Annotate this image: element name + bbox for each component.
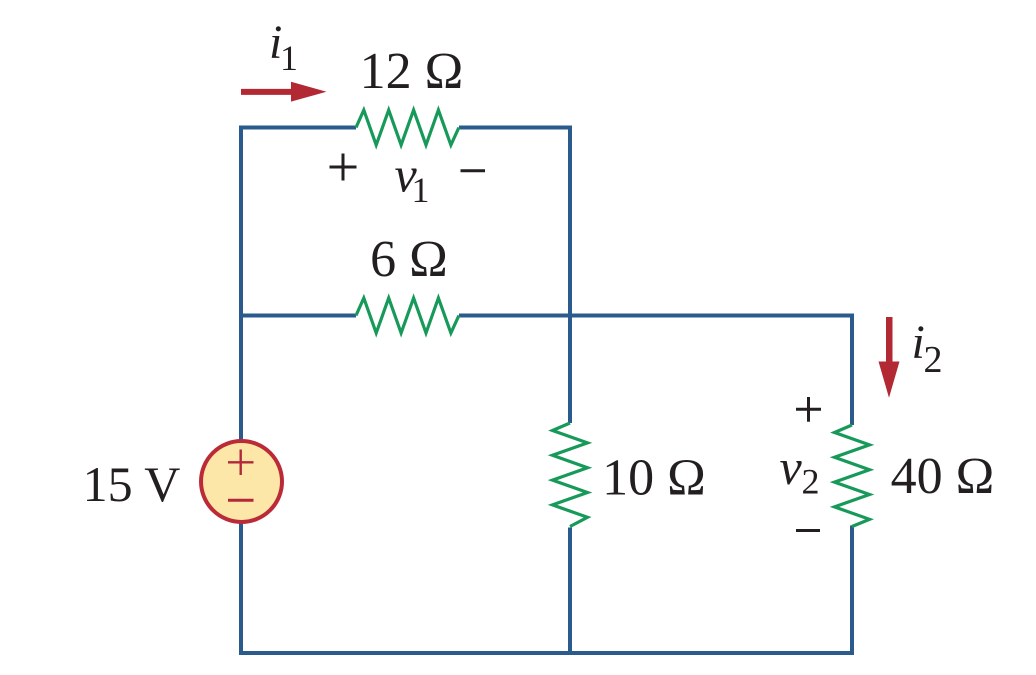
svg-text:2: 2 xyxy=(802,462,820,502)
svg-text:15 V: 15 V xyxy=(83,456,181,512)
svg-text:40 Ω: 40 Ω xyxy=(891,448,995,505)
resistor R2 6 ohm zigzag xyxy=(356,298,459,333)
minus sign v2 xyxy=(796,529,820,532)
wire top right + loop right vertical xyxy=(459,128,570,318)
minus sign v1 xyxy=(461,169,486,172)
resistor R4 40 ohm zigzag xyxy=(835,425,870,527)
svg-text:12 Ω: 12 Ω xyxy=(360,43,464,100)
svg-text:1: 1 xyxy=(412,170,430,210)
voltage source minus sign xyxy=(228,499,254,502)
resistor R3 10 ohm zigzag xyxy=(553,423,588,527)
wire 10-ohm upper stub xyxy=(568,316,572,424)
svg-text:1: 1 xyxy=(280,38,298,78)
svg-text:2: 2 xyxy=(924,339,943,381)
wire middle right + right branch upper xyxy=(459,316,852,426)
current arrow i1 xyxy=(241,82,327,102)
wire 10-ohm lower stub xyxy=(568,528,572,654)
voltage source plus sign xyxy=(228,450,254,476)
wire left lower + bottom + right lower xyxy=(241,523,852,654)
svg-text:6 Ω: 6 Ω xyxy=(370,231,448,288)
plus sign v1 xyxy=(330,154,357,181)
wire top loop left+top xyxy=(241,128,852,654)
svg-text:10 Ω: 10 Ω xyxy=(602,450,706,507)
svg-text:v: v xyxy=(780,439,803,495)
voltage source V1 15V circle xyxy=(201,441,282,522)
resistor R1 12 ohm zigzag xyxy=(356,110,459,145)
plus sign v2 xyxy=(796,397,821,422)
wire middle left stub xyxy=(241,314,356,318)
current arrow i2 xyxy=(879,317,900,398)
